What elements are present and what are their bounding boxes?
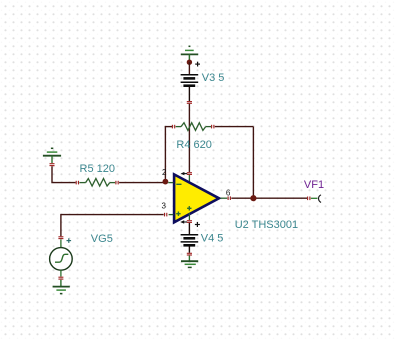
svg-text:U2 THS3001: U2 THS3001 [235, 219, 298, 231]
wire output [231, 197, 307, 199]
battery V3 [181, 75, 199, 104]
junction inverting input node [163, 179, 169, 185]
wire feedback right vertical [252, 127, 254, 199]
svg-text:R4 620: R4 620 [176, 139, 211, 151]
wire op-amp to V4 [188, 223, 190, 234]
battery V4 plus marker [195, 222, 200, 227]
svg-text:VG5: VG5 [91, 233, 113, 245]
wire R5 to inverting node [119, 182, 165, 184]
op-amp output pin 6 [221, 196, 231, 200]
svg-text:V3 5: V3 5 [202, 72, 225, 84]
battery V3 plus marker [195, 62, 200, 67]
wire feedback left vertical [164, 127, 166, 183]
op-amp U2 bottom power pin (4) [180, 213, 192, 224]
battery V4 [181, 235, 199, 255]
op-amp U2 top power pin (7) [181, 172, 192, 182]
svg-text:3: 3 [162, 201, 167, 210]
wire ground to R5 [52, 166, 76, 182]
wire feedback left horizontal to R4 [165, 126, 172, 128]
svg-text:2: 2 [162, 168, 167, 177]
svg-text:V4 5: V4 5 [201, 233, 224, 245]
wire feedback top right [215, 126, 254, 128]
ground symbol (below V4) [181, 256, 198, 268]
voltage pin VF1 probe [308, 195, 321, 203]
resistor R5 [76, 179, 118, 187]
ground symbol (below VG5) [53, 277, 70, 293]
ground symbol (left, above R5) [43, 148, 61, 165]
wire node to V3 [188, 62, 190, 74]
voltage generator VG5 [50, 237, 73, 277]
resistor R4 [172, 123, 214, 131]
op-amp U2 THS3001 [168, 174, 219, 222]
svg-text:VF1: VF1 [304, 179, 324, 191]
junction output node [250, 195, 256, 201]
junction node top (V3 positive) [187, 60, 192, 65]
wire V3 to op-amp top power pin [188, 104, 190, 172]
wire VG5 to op-amp pin 3 [61, 213, 167, 236]
svg-text:R5 120: R5 120 [80, 163, 115, 175]
svg-text:6: 6 [226, 188, 231, 197]
ground symbol (top, above V3) [181, 46, 198, 60]
